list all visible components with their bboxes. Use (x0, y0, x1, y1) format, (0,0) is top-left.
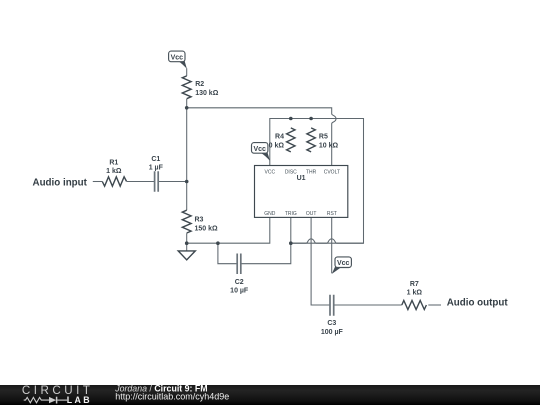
wire: R1 to C1 (127, 181, 155, 183)
svg-text:1 kΩ: 1 kΩ (407, 290, 423, 297)
svg-text:130 kΩ: 130 kΩ (195, 90, 219, 97)
resistor R4 (287, 128, 295, 152)
svg-text:Vcc: Vcc (253, 146, 266, 153)
node: C2 left junction (216, 241, 220, 245)
power flag Vcc (R2 top) (169, 51, 187, 69)
wire: C2 right branch (241, 243, 291, 264)
wire: Vcc rail for R4 R5 (270, 119, 364, 244)
power flag Vcc (RST pin) (332, 257, 352, 274)
svg-text:150 kΩ: 150 kΩ (195, 225, 219, 232)
wire: R7 to audio output (428, 304, 441, 306)
svg-text:10 µF: 10 µF (230, 288, 249, 295)
svg-text:CVOLT: CVOLT (324, 169, 340, 175)
svg-text:R2: R2 (195, 81, 204, 88)
IC U1 box (255, 166, 348, 218)
capacitor C2 (237, 254, 241, 275)
svg-text:Audio input: Audio input (33, 177, 88, 188)
wire: TRIG pin down (290, 217, 292, 243)
svg-text:R7: R7 (410, 281, 419, 288)
wire: audio input lead (93, 181, 103, 183)
svg-text:http://circuitlab.com/cyh4d9e: http://circuitlab.com/cyh4d9e (115, 392, 229, 402)
svg-text:R3: R3 (195, 217, 204, 224)
svg-text:VCC: VCC (265, 169, 276, 175)
node: C1 output junction (185, 180, 189, 184)
svg-text:C1: C1 (151, 156, 160, 163)
svg-text:C2: C2 (235, 279, 244, 286)
resistor R1 (102, 177, 126, 186)
svg-text:Vcc: Vcc (337, 260, 350, 267)
svg-text:LAB: LAB (67, 395, 92, 405)
resistor R3 (182, 210, 191, 233)
svg-text:TRIG: TRIG (285, 211, 297, 217)
svg-text:THR: THR (306, 169, 317, 175)
CircuitLab logo (22, 384, 94, 405)
svg-text:DISC: DISC (285, 169, 297, 175)
resistor R5 (307, 128, 315, 152)
node: TRIG junction (289, 241, 293, 245)
svg-text:1 µF: 1 µF (149, 164, 164, 171)
svg-text:10 kΩ: 10 kΩ (319, 142, 339, 149)
wire: OUT pin down to C3 (311, 217, 330, 305)
wire: R2 bottom to node (186, 99, 188, 108)
wire: node to CVOLT horizontal + vertical with hop over rail (187, 108, 336, 166)
resistor R2 (182, 76, 191, 99)
svg-text:RST: RST (327, 211, 337, 217)
node: R5 top junction (309, 117, 313, 121)
wire: ground stub (186, 243, 188, 251)
svg-text:U1: U1 (297, 175, 306, 182)
svg-text:100 µF: 100 µF (321, 329, 344, 336)
wire: main left vertical (C1 node) (186, 108, 188, 210)
wire: RST pin down to Vcc flag (331, 217, 333, 273)
svg-text:Audio output: Audio output (447, 298, 509, 309)
wire: C1 to node (158, 181, 187, 183)
svg-text:OUT: OUT (306, 211, 317, 217)
svg-text:C3: C3 (327, 320, 336, 327)
capacitor C3 (330, 295, 334, 316)
svg-text:1 kΩ: 1 kΩ (106, 168, 122, 175)
wire: bottom rail hops over OUT and RST (291, 239, 364, 243)
ground (178, 251, 195, 260)
wire: C2 left branch (218, 243, 237, 264)
node: R2 bottom junction (185, 106, 189, 110)
node: ground junction (185, 241, 189, 245)
svg-text:R4: R4 (275, 133, 284, 140)
svg-text:Vcc: Vcc (171, 54, 184, 61)
node: R4 top junction (289, 117, 293, 121)
wire: ground rail to GND pin (187, 217, 270, 243)
svg-text:GND: GND (264, 211, 276, 217)
wire: C3 to R7 (334, 304, 402, 306)
svg-text:R1: R1 (109, 160, 118, 167)
resistor R7 (402, 301, 427, 310)
capacitor C1 (155, 171, 159, 192)
power flag Vcc (U1 VCC pin) (252, 143, 271, 161)
svg-text:R5: R5 (319, 133, 328, 140)
wire: R3 bottom to ground rail (186, 233, 188, 243)
wire: Vcc stub to R2 top (186, 68, 188, 76)
